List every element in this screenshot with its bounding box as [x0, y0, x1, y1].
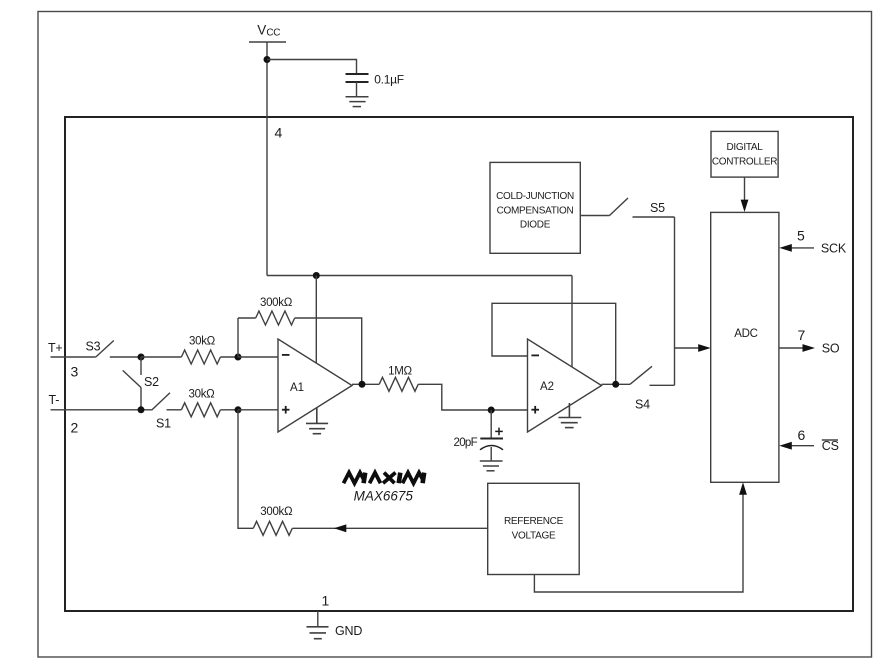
svg-text:0.1µF: 0.1µF	[374, 72, 403, 86]
ADC label	[734, 328, 757, 340]
svg-text:S2: S2	[144, 375, 159, 389]
value label 1M	[388, 366, 412, 378]
wire node to C2	[490, 410, 492, 439]
pin 4 label	[275, 125, 283, 141]
value label 300k feedback	[260, 297, 293, 309]
svg-text:30kΩ: 30kΩ	[189, 389, 216, 401]
value label 0.1uF	[374, 72, 403, 86]
ground under C2	[480, 461, 503, 471]
wire R4 to A2 input jog	[418, 384, 527, 410]
capacitor C2 20pF plates	[480, 439, 503, 450]
resistor R2 30k	[181, 350, 220, 364]
switch S2 top contact stub	[140, 357, 142, 375]
node SO label	[822, 341, 840, 355]
switch S5 label	[650, 201, 665, 215]
wire S4 contact	[650, 384, 675, 386]
node A1 output dot	[359, 381, 366, 388]
pin 5 label	[797, 228, 805, 244]
wire C1 to ground	[356, 82, 358, 96]
op-amp A1 label	[290, 382, 304, 394]
wire SO output with arrow	[779, 344, 815, 352]
switch S1 label	[156, 416, 171, 430]
svg-text:30kΩ: 30kΩ	[189, 336, 216, 348]
pin 6 label	[798, 427, 806, 443]
resistor R5 300k	[253, 521, 292, 535]
svg-text:CONTROLLER: CONTROLLER	[712, 157, 777, 168]
svg-text:300kΩ: 300kΩ	[260, 506, 293, 518]
reference voltage text	[504, 516, 564, 541]
resistor R4 1M	[379, 377, 418, 391]
svg-text:GND: GND	[335, 624, 362, 638]
wire R2 to inverting node	[220, 356, 238, 358]
digital controller box	[711, 131, 778, 177]
pin 3 label	[71, 364, 79, 380]
value label 300k reference	[260, 506, 293, 518]
MAXIM logo	[344, 473, 425, 484]
wire VCC rail	[267, 275, 572, 277]
svg-text:6: 6	[798, 427, 806, 443]
svg-text:T+: T+	[48, 341, 63, 355]
cold-junction box text	[496, 191, 574, 231]
digital controller text	[712, 142, 777, 167]
wire C2 to ground	[490, 447, 492, 461]
value label 30k bottom	[189, 389, 216, 401]
op-amp A1	[278, 339, 352, 432]
wire bus to ADC with arrow	[675, 344, 711, 352]
svg-text:A1: A1	[290, 382, 304, 394]
ground under A1	[306, 408, 328, 434]
node T+ junction dot	[138, 354, 145, 361]
wire feedback left segment	[238, 317, 256, 319]
wire feedback right segment down to output	[295, 318, 362, 384]
node 20pF junction dot	[488, 407, 495, 414]
svg-text:3: 3	[71, 364, 79, 380]
svg-text:CS: CS	[822, 439, 839, 453]
svg-text:S4: S4	[635, 398, 650, 412]
wire reference to ADC bottom with arrow	[534, 482, 747, 592]
wire cold-junction output	[580, 215, 609, 217]
wire S3 contact to node	[110, 356, 141, 358]
wire T+ lead	[51, 356, 96, 358]
wire to A1 inverting input	[238, 356, 278, 358]
svg-text:2: 2	[71, 420, 79, 436]
pin 2 label	[71, 420, 79, 436]
wire feedback riser	[237, 318, 239, 357]
node rail junction dot	[313, 272, 320, 279]
wire controller to ADC with arrow	[741, 177, 749, 212]
wire R5 up to non-inverting node	[238, 410, 253, 529]
svg-text:S5: S5	[650, 201, 665, 215]
wire VCC down to rail	[266, 42, 268, 276]
resistor R3 30k	[181, 403, 220, 417]
switch S4 blade	[630, 366, 652, 384]
cold-junction compensation diode box	[490, 162, 580, 253]
node T- input label	[49, 393, 60, 407]
svg-text:S3: S3	[86, 340, 101, 354]
wire reference output with arrow	[292, 524, 487, 532]
wire A2 output	[602, 383, 631, 385]
wire switch bus vertical	[674, 217, 676, 385]
node CS label with overline	[822, 439, 839, 453]
switch S2 label	[144, 375, 159, 389]
svg-text:1MΩ: 1MΩ	[388, 366, 412, 378]
VCC supply bar	[249, 41, 286, 43]
capacitor C2 plus sign	[495, 428, 503, 436]
svg-text:S1: S1	[156, 416, 171, 430]
svg-text:5: 5	[797, 228, 805, 244]
node T+ input label	[48, 341, 63, 355]
value label 20pF	[454, 437, 478, 449]
MAX6675 part number	[354, 489, 414, 504]
node GND label	[335, 624, 362, 638]
wire A1 output	[352, 383, 379, 385]
svg-text:7: 7	[798, 327, 806, 343]
switch S5 blade	[610, 198, 629, 216]
switch S3 blade	[96, 341, 114, 358]
svg-text:DIGITAL: DIGITAL	[726, 142, 763, 153]
wire A2 feedback loop	[492, 303, 616, 384]
op-amp A2	[528, 339, 602, 432]
wire GND stub	[317, 611, 319, 626]
pin 7 label	[798, 327, 806, 343]
node T- junction dot	[138, 406, 145, 413]
pin 1 label	[322, 593, 330, 609]
svg-text:COLD-JUNCTION: COLD-JUNCTION	[496, 191, 574, 202]
wire SCK input with arrow	[779, 244, 814, 252]
switch S3 label	[86, 340, 101, 354]
node A2 output dot	[612, 381, 619, 388]
wire S5 contact	[633, 216, 675, 218]
svg-text:COMPENSATION: COMPENSATION	[497, 205, 574, 216]
node VCC junction dot	[264, 56, 271, 63]
op-amp A2 label	[540, 381, 554, 393]
svg-text:20pF: 20pF	[454, 437, 478, 449]
wire R3 to non-inverting node	[220, 409, 238, 411]
switch S4 label	[635, 398, 650, 412]
svg-text:T-: T-	[49, 393, 60, 407]
svg-text:1: 1	[322, 593, 330, 609]
ground GND symbol	[307, 627, 329, 639]
switch S1 blade	[152, 393, 170, 410]
svg-text:MAX6675: MAX6675	[354, 489, 414, 504]
node SCK label	[821, 241, 847, 255]
ADC box	[711, 212, 779, 482]
switch S2 blade	[123, 370, 141, 387]
ground under A2	[558, 403, 581, 428]
switch S2 bottom stub	[140, 388, 142, 410]
IC boundary box MAX6675	[65, 117, 853, 611]
wire supply stub to A2	[571, 276, 573, 368]
svg-text:A2: A2	[540, 381, 554, 393]
svg-text:REFERENCE: REFERENCE	[504, 516, 564, 527]
svg-text:4: 4	[275, 125, 283, 141]
resistor R1 300k feedback	[256, 311, 295, 325]
wire VCC node to capacitor	[267, 60, 357, 74]
wire node to R2	[141, 356, 181, 358]
wire S1 contact to R3	[167, 409, 182, 411]
wire to A1 non-inverting input	[238, 409, 278, 411]
node inverting input dot	[235, 354, 242, 361]
wire supply stub to A1	[315, 276, 317, 364]
svg-text:ADC: ADC	[734, 328, 757, 340]
ground under C1	[346, 97, 369, 107]
reference voltage box	[488, 483, 580, 574]
capacitor C1 0.1uF plates	[346, 74, 369, 82]
value label 30k top	[189, 336, 216, 348]
svg-text:DIODE: DIODE	[520, 220, 551, 231]
svg-text:SO: SO	[822, 341, 840, 355]
svg-text:VOLTAGE: VOLTAGE	[512, 530, 556, 541]
wire T- lead	[51, 409, 153, 411]
node non-inverting input dot	[235, 406, 242, 413]
wire CS input with arrow	[779, 442, 814, 450]
svg-text:300kΩ: 300kΩ	[260, 297, 293, 309]
VCC label	[257, 22, 280, 38]
svg-text:SCK: SCK	[821, 241, 847, 255]
